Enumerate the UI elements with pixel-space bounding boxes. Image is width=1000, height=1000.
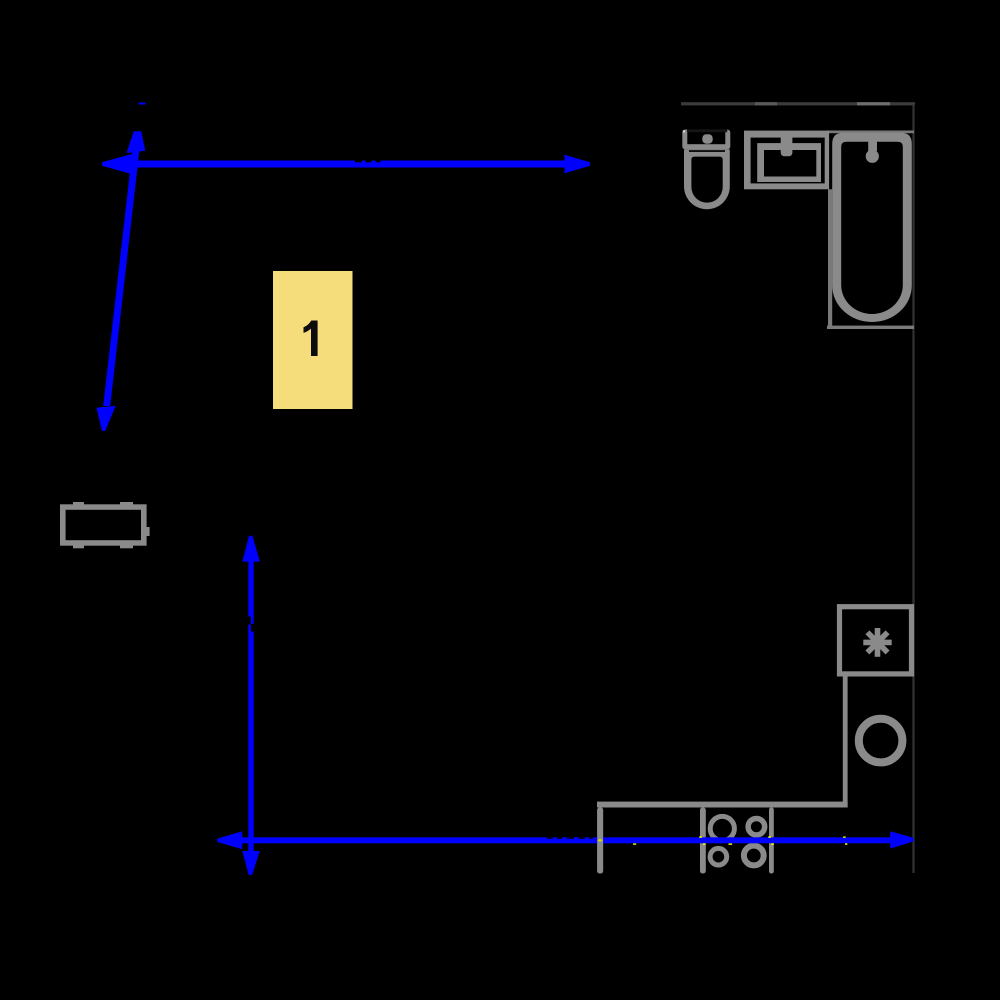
- counter tick mid: [700, 808, 706, 874]
- asterisk: [863, 628, 891, 657]
- washer unit left line: [843, 676, 848, 807]
- dimension arrow horizontal bottom: [217, 831, 913, 849]
- label remnants notches on top arrow: [355, 161, 593, 839]
- dimension arrow slanted: [97, 103, 146, 432]
- burner bottom-right: [744, 846, 764, 866]
- bath zone thin line bottom: [827, 326, 914, 329]
- fridge box: [840, 607, 912, 674]
- wall line right (dark): [912, 104, 914, 873]
- bath zone thin line left: [828, 189, 832, 329]
- counter tick left redrawn over blue: [597, 808, 603, 874]
- dimension arrow horizontal top: [102, 154, 590, 175]
- burner bottom-left: [710, 848, 727, 865]
- left small rect fixture: [60, 502, 150, 548]
- bathtub: [832, 133, 912, 322]
- burner top-right: [748, 818, 765, 835]
- bath zone thin line top: [827, 131, 914, 134]
- yellow specks at crossings: [633, 836, 847, 845]
- counter tick left: [597, 808, 603, 874]
- sink: [744, 131, 829, 190]
- washer circle: [859, 719, 903, 763]
- counter top line: [597, 802, 848, 808]
- room label 1: [273, 271, 353, 409]
- counter tick right: [769, 808, 774, 874]
- black notches over vertical arrow: [248, 617, 251, 625]
- wall line top (dark): [681, 102, 915, 105]
- toilet: [682, 129, 730, 209]
- burner top-left: [710, 816, 734, 840]
- dimension arrow vertical: [242, 536, 260, 875]
